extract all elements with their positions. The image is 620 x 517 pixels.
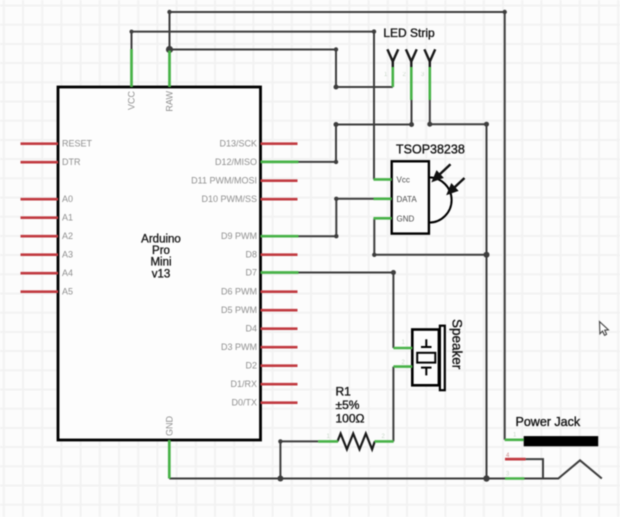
svg-text:100Ω: 100Ω <box>336 411 365 425</box>
svg-text:±5%: ±5% <box>336 398 360 412</box>
svg-text:D9 PWM: D9 PWM <box>221 231 257 241</box>
svg-text:LED Strip: LED Strip <box>383 26 435 40</box>
svg-text:D7: D7 <box>245 268 257 278</box>
svg-text:TSOP38238: TSOP38238 <box>396 143 465 157</box>
svg-text:Mini: Mini <box>150 257 171 269</box>
svg-text:A1: A1 <box>62 213 73 223</box>
svg-text:GND: GND <box>164 416 174 437</box>
svg-text:A5: A5 <box>62 287 73 297</box>
svg-text:RESET: RESET <box>62 139 93 149</box>
svg-text:D4: D4 <box>245 324 257 334</box>
svg-text:R1: R1 <box>336 385 352 399</box>
svg-text:DTR: DTR <box>62 157 81 167</box>
svg-text:v13: v13 <box>152 268 171 280</box>
svg-text:D8: D8 <box>245 250 257 260</box>
svg-text:GND: GND <box>397 214 415 223</box>
svg-text:D3 PWM: D3 PWM <box>221 342 257 352</box>
svg-text:VCC: VCC <box>127 91 137 111</box>
svg-text:D11 PWM/MOSI: D11 PWM/MOSI <box>191 176 257 186</box>
svg-text:A4: A4 <box>62 268 73 278</box>
svg-text:Vcc: Vcc <box>397 175 410 184</box>
svg-text:Arduino: Arduino <box>141 234 181 246</box>
svg-text:D2: D2 <box>245 361 257 371</box>
svg-text:Speaker: Speaker <box>450 319 465 370</box>
svg-text:D13/SCK: D13/SCK <box>219 139 257 149</box>
svg-text:D6 PWM: D6 PWM <box>221 287 257 297</box>
svg-text:DATA: DATA <box>397 195 418 204</box>
svg-text:D1/RX: D1/RX <box>230 379 257 389</box>
svg-text:A3: A3 <box>62 250 73 260</box>
svg-text:A0: A0 <box>62 194 73 204</box>
svg-text:D0/TX: D0/TX <box>231 398 257 408</box>
svg-text:Power Jack: Power Jack <box>516 415 581 429</box>
svg-text:Pro: Pro <box>152 245 170 257</box>
svg-text:D5 PWM: D5 PWM <box>221 305 257 315</box>
svg-text:A2: A2 <box>62 231 73 241</box>
svg-text:D10 PWM/SS: D10 PWM/SS <box>201 194 257 204</box>
svg-text:RAW: RAW <box>165 91 175 112</box>
svg-text:D12/MISO: D12/MISO <box>215 157 257 167</box>
